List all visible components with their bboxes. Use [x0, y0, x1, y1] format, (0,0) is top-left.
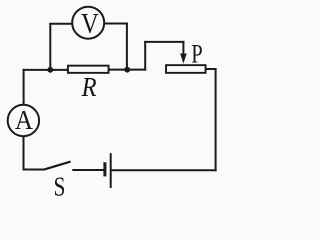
- wire: main top right (resistor to step corner): [109, 69, 146, 71]
- voltmeter U-V: [72, 7, 104, 40]
- wire: voltmeter loop left vertical: [49, 24, 51, 71]
- wire: switch to battery: [72, 169, 104, 171]
- battery cell: long positive plate: [110, 153, 112, 188]
- wire: main top left (corner to resistor): [23, 69, 68, 71]
- junction node left (R / voltmeter tap): [47, 67, 53, 73]
- wire: left vertical upper (corner to ammeter): [23, 69, 25, 104]
- wire: voltmeter loop right vertical: [126, 23, 128, 71]
- svg-text:V: V: [81, 7, 99, 39]
- svg-text:P: P: [191, 40, 202, 69]
- svg-text:S: S: [54, 172, 66, 199]
- wire: bottom right horizontal (battery to right corner): [112, 169, 217, 171]
- label S: [54, 172, 66, 202]
- wire: left vertical lower (ammeter to bottom corner): [23, 137, 25, 171]
- wire: potentiometer right lead: [206, 68, 217, 70]
- potentiometer P track: [166, 65, 206, 73]
- wire: bottom left horizontal: [23, 169, 45, 171]
- label P: [191, 40, 202, 69]
- potentiometer P wiper arrowhead: [180, 54, 187, 64]
- svg-text:R: R: [81, 72, 97, 103]
- wire: step up vertical: [144, 41, 146, 71]
- wire: voltmeter top-left horizontal: [49, 23, 71, 25]
- svg-text:A: A: [15, 105, 33, 135]
- wire: right vertical: [215, 68, 217, 171]
- ammeter U-A: [8, 105, 39, 136]
- label R: [81, 72, 97, 103]
- switch S blade: [44, 162, 70, 170]
- wire: voltmeter top-right horizontal: [105, 23, 128, 25]
- wire: wiper arrow stem: [182, 41, 184, 55]
- junction node right (R / voltmeter tap): [124, 67, 130, 73]
- battery cell: short negative plate: [103, 162, 106, 176]
- resistor R: [68, 66, 109, 73]
- wire: step top horizontal to wiper: [144, 41, 184, 43]
